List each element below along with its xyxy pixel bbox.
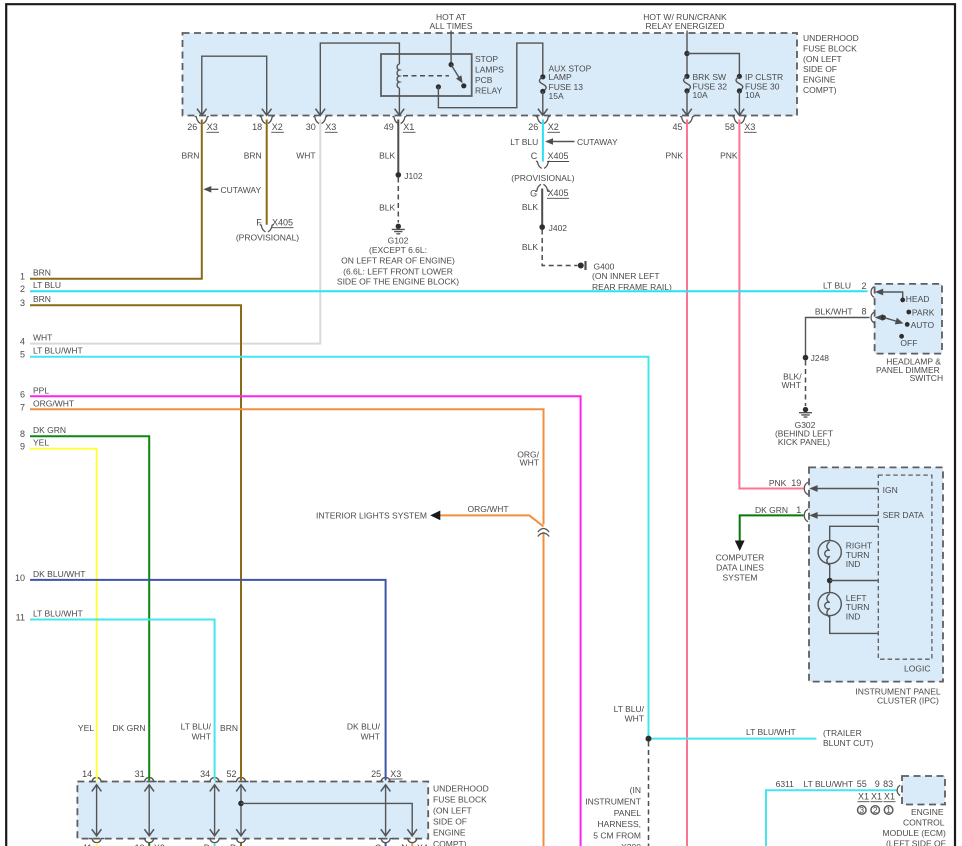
svg-text:X3: X3 [744, 122, 755, 132]
svg-text:(EXCEPT 6.6L:: (EXCEPT 6.6L: [369, 245, 427, 255]
svg-text:G: G [530, 188, 537, 198]
svg-text:RELAY: RELAY [475, 86, 503, 96]
svg-text:6311: 6311 [776, 779, 795, 789]
svg-text:PNK: PNK [666, 151, 684, 161]
svg-text:BRN: BRN [33, 294, 51, 304]
wire dashed (in instrument panel harness) [585, 742, 648, 846]
svg-text:IGN: IGN [883, 485, 898, 495]
internal arrow pin 52 [236, 785, 246, 836]
svg-text:WHT: WHT [625, 714, 644, 724]
svg-text:SER DATA: SER DATA [883, 510, 925, 520]
connector pin 19 X2 (bottom edge) [135, 839, 165, 846]
svg-text:(LEFT SIDE OF: (LEFT SIDE OF [886, 838, 946, 846]
svg-text:LT BLU/WHT: LT BLU/WHT [746, 727, 796, 737]
connector pin 52 (bottom block) [226, 769, 248, 782]
svg-text:LT BLU/: LT BLU/ [181, 722, 212, 732]
fuse F32: BRK SW FUSE 32 10A [682, 72, 727, 115]
connector pin 1 (IPC) [755, 505, 808, 522]
svg-text:8: 8 [861, 307, 866, 317]
ground G102 [337, 224, 459, 287]
svg-text:INTERIOR LIGHTS SYSTEM: INTERIOR LIGHTS SYSTEM [316, 510, 427, 520]
wire BLK dashed to ground G102 [379, 178, 398, 223]
svg-text:2: 2 [20, 284, 25, 294]
wire: bridge pins 26 and 18 [197, 56, 272, 115]
svg-text:RELAY ENERGIZED: RELAY ENERGIZED [645, 21, 724, 31]
internal arrow pin 34 [210, 785, 220, 836]
wire: relay output to AUX fuse [438, 43, 542, 108]
svg-text:WHT: WHT [782, 380, 801, 390]
svg-text:FUSE BLOCK: FUSE BLOCK [803, 43, 857, 53]
svg-text:BLK: BLK [522, 202, 538, 212]
svg-text:2: 2 [861, 281, 866, 291]
svg-text:COMPUTER: COMPUTER [716, 552, 765, 562]
wire: relay coil to pin 49 [395, 88, 405, 115]
wire label DK BLU/WHT (above pin 25) [347, 722, 381, 742]
wire ORG/WHT circuit 7 (left edge, down to interior lights branch) [20, 398, 544, 524]
svg-text:CUTAWAY: CUTAWAY [221, 185, 262, 195]
internal arrow pin 25 [381, 785, 391, 836]
svg-text:X405: X405 [272, 217, 293, 227]
svg-text:UNDERHOOD: UNDERHOOD [803, 33, 859, 43]
connector pin C (bottom edge, 25) [375, 839, 394, 846]
connector X405 pin C [511, 151, 574, 183]
wire PPL circuit 6 (left edge to bottom) [20, 385, 581, 846]
svg-text:(ON INNER LEFT: (ON INNER LEFT [592, 271, 660, 281]
wire PNK from pin 45 to bottom [666, 120, 687, 846]
wire SER DATA (logic to pin 1) [809, 510, 924, 520]
svg-text:LOGIC: LOGIC [904, 664, 930, 674]
svg-text:COMPT): COMPT) [433, 839, 467, 846]
svg-text:HEAD: HEAD [906, 294, 930, 304]
feed label HOT AT ALL TIMES [430, 12, 473, 63]
svg-text:58: 58 [725, 122, 735, 132]
svg-text:X1: X1 [858, 792, 869, 802]
svg-text:DK GRN: DK GRN [112, 723, 145, 733]
svg-text:DK GRN: DK GRN [33, 425, 66, 435]
connector pin 34 (bottom block) [200, 769, 222, 782]
svg-text:49: 49 [384, 122, 394, 132]
connector pin 19 (IPC) [769, 478, 808, 495]
wire: pin 30 riser to relay coil [316, 43, 400, 115]
svg-text:25: 25 [371, 769, 381, 779]
connector pin D (bottom edge, 52) [230, 839, 249, 846]
svg-text:4: 4 [20, 337, 25, 347]
svg-text:DK BLU/WHT: DK BLU/WHT [33, 569, 85, 579]
svg-text:1: 1 [20, 272, 25, 282]
svg-text:WHT: WHT [192, 732, 211, 742]
svg-text:HARNESS,: HARNESS, [598, 819, 641, 829]
svg-text:26: 26 [187, 122, 197, 132]
svg-text:14: 14 [82, 769, 92, 779]
svg-text:ALL TIMES: ALL TIMES [430, 21, 473, 31]
svg-text:LAMP: LAMP [549, 72, 572, 82]
wire BRN pin 18 X2 to connector X405 F [244, 120, 267, 225]
svg-text:X3: X3 [325, 122, 336, 132]
svg-text:INSTRUMENT: INSTRUMENT [585, 797, 641, 807]
svg-text:2: 2 [873, 805, 878, 815]
wire LT BLU pin 26 X2 to connector X405 C [510, 120, 543, 162]
connector pin 41 (bottom edge) [82, 839, 104, 846]
svg-text:COMPT): COMPT) [803, 85, 837, 95]
underhood fuse block (top) [183, 33, 859, 116]
svg-text:BLK: BLK [379, 150, 395, 160]
connector pin 26 X2 [528, 117, 560, 133]
svg-text:J402: J402 [549, 223, 568, 233]
svg-text:FUSE BLOCK: FUSE BLOCK [433, 794, 487, 804]
svg-text:X200: X200 [621, 842, 641, 846]
wire YEL circuit 9 (left edge to bottom fuse block pin 14) [20, 438, 97, 781]
switch wiper arm pin 8 to AUTO [881, 315, 903, 324]
svg-text:31: 31 [135, 769, 145, 779]
svg-text:BRN: BRN [220, 723, 238, 733]
wire LT BLU/WHT circuit 5 (left edge to trailer junction) [20, 346, 649, 739]
svg-text:3: 3 [20, 298, 25, 308]
wire BLK from X405 G to splice J402 [522, 189, 542, 228]
svg-text:8: 8 [20, 429, 25, 439]
svg-text:(TRAILER: (TRAILER [823, 728, 862, 738]
internal arrow pin 31 [144, 785, 154, 836]
svg-text:CUTAWAY: CUTAWAY [577, 137, 618, 147]
svg-text:C: C [531, 151, 538, 161]
connector pin N X4 (bottom edge) [401, 839, 428, 846]
svg-text:SIDE OF THE ENGINE BLOCK): SIDE OF THE ENGINE BLOCK) [337, 277, 459, 287]
svg-text:X3: X3 [207, 122, 218, 132]
wire DK GRN from IPC pin 1 to computer data lines [740, 515, 804, 545]
internal wire pin 52 to pin N X4 [238, 801, 417, 836]
svg-text:WHT: WHT [361, 732, 380, 742]
svg-text:WHT: WHT [520, 458, 539, 468]
svg-text:AUTO: AUTO [911, 320, 935, 330]
connector X405 pin F [236, 217, 299, 242]
svg-text:CONTROL: CONTROL [903, 817, 945, 827]
splice J102 [396, 171, 423, 181]
svg-text:LT BLU/WHT: LT BLU/WHT [804, 779, 854, 789]
svg-text:IND: IND [846, 611, 861, 621]
svg-text:11: 11 [16, 613, 25, 623]
svg-text:10A: 10A [745, 90, 760, 100]
svg-text:PNK: PNK [769, 478, 787, 488]
wire ORG/WHT continues to bottom through break [543, 532, 545, 846]
svg-text:BRN: BRN [182, 150, 200, 160]
svg-text:LT BLU/: LT BLU/ [614, 704, 645, 714]
svg-text:J102: J102 [404, 171, 423, 181]
svg-text:BLUNT CUT): BLUNT CUT) [823, 738, 874, 748]
svg-text:30: 30 [306, 122, 316, 132]
svg-text:83: 83 [883, 779, 893, 789]
svg-text:YEL: YEL [78, 723, 94, 733]
svg-text:1: 1 [796, 505, 801, 515]
svg-text:PPL: PPL [33, 385, 49, 395]
svg-text:MODULE (ECM): MODULE (ECM) [883, 828, 946, 838]
connector pin 8 (headlamp switch) [815, 306, 883, 323]
svg-text:(ON LEFT: (ON LEFT [803, 54, 842, 64]
svg-text:LT BLU: LT BLU [33, 280, 61, 290]
connector pin 31 (bottom block) [135, 769, 157, 782]
svg-text:10: 10 [15, 573, 25, 583]
svg-text:IND: IND [846, 559, 861, 569]
svg-text:18: 18 [252, 122, 262, 132]
wire DK GRN circuit 8 (left edge to bottom fuse block pin 31) [20, 425, 149, 780]
connector ECM (pins 55 9 83 / X1 X1 X1) [857, 779, 900, 815]
instrument panel cluster (IPC) [809, 467, 943, 705]
wire PNK from pin 58 X3 to IPC pin 19 [720, 120, 803, 489]
svg-text:RIGHT: RIGHT [846, 541, 872, 551]
svg-text:SWITCH: SWITCH [910, 373, 944, 383]
svg-text:9: 9 [20, 442, 25, 452]
svg-text:LAMPS: LAMPS [475, 65, 504, 75]
svg-text:OFF: OFF [900, 338, 917, 348]
svg-text:3: 3 [859, 805, 864, 815]
switch contacts HEAD PARK AUTO OFF [899, 294, 935, 348]
svg-text:X3: X3 [390, 769, 401, 779]
connector pin D (bottom edge, 34) [204, 839, 223, 846]
svg-text:X1: X1 [403, 122, 414, 132]
svg-text:PANEL: PANEL [614, 808, 642, 818]
ground G302 [775, 407, 833, 447]
headlamp and panel dimmer switch [875, 284, 944, 383]
svg-text:X1: X1 [871, 792, 882, 802]
svg-text:ON LEFT REAR OF ENGINE): ON LEFT REAR OF ENGINE) [341, 256, 455, 266]
connector pin 26 X3 [187, 117, 219, 133]
svg-text:J248: J248 [811, 353, 830, 363]
svg-text:(PROVISIONAL): (PROVISIONAL) [511, 173, 574, 183]
feed label HOT W/ RUN/CRANK RELAY ENERGIZED [643, 12, 727, 77]
fuse F30: IP CLSTR FUSE 30 10A [735, 72, 784, 115]
lamp: left turn indicator [818, 592, 869, 621]
svg-text:9: 9 [875, 779, 880, 789]
svg-text:PARK: PARK [912, 308, 935, 318]
trailer blunt cut junction [614, 704, 874, 748]
svg-text:(6.6L: LEFT FRONT LOWER: (6.6L: LEFT FRONT LOWER [343, 267, 453, 277]
svg-text:BRN: BRN [33, 268, 51, 278]
engine control module (ECM) [883, 776, 946, 846]
connector pin 2 (headlamp switch) [823, 281, 903, 298]
svg-text:BLK: BLK [379, 203, 395, 213]
wire BLK from pin 49 X1 [379, 120, 398, 175]
svg-text:X1: X1 [884, 792, 895, 802]
wire label LT BLU/WHT (above pin 34) [181, 722, 212, 742]
connector pin 30 X3 [306, 117, 338, 133]
underhood fuse block (bottom) [77, 782, 488, 846]
svg-text:5: 5 [20, 350, 25, 360]
fuse F13: AUX STOP LAMP FUSE 13 15A [538, 64, 592, 116]
svg-text:BLK: BLK [522, 242, 538, 252]
node: lamp junction [827, 564, 878, 593]
svg-text:ENGINE: ENGINE [803, 75, 836, 85]
svg-text:19: 19 [791, 478, 801, 488]
wire LT BLU/WHT circuit 11 (left edge to bottom fuse block pin 34) [16, 609, 215, 781]
internal arrow pin 14 [92, 785, 102, 836]
relay: STOP LAMPS PCB RELAY [381, 54, 504, 96]
svg-text:X2: X2 [548, 122, 559, 132]
svg-text:DATA LINES: DATA LINES [716, 563, 764, 573]
svg-text:UNDERHOOD: UNDERHOOD [433, 783, 489, 793]
connector pin 25 X3 (bottom block) [371, 769, 402, 782]
svg-text:(PROVISIONAL): (PROVISIONAL) [236, 232, 299, 242]
wire DK BLU/WHT circuit 10 (left edge to bottom fuse block pin 25) [15, 569, 386, 781]
break symbol on ORG/WHT wire [538, 529, 549, 537]
svg-text:LT BLU/WHT: LT BLU/WHT [33, 609, 83, 619]
svg-text:X2: X2 [272, 122, 283, 132]
computer data lines system arrow [716, 541, 765, 583]
svg-text:WHT: WHT [33, 333, 52, 343]
connector pin 45 [672, 117, 693, 132]
svg-text:LT BLU: LT BLU [823, 281, 851, 291]
splice J248 [803, 353, 830, 363]
connector pin 49 X1 [384, 117, 416, 133]
wire: right turn lamp to logic [830, 526, 879, 540]
wire BLK/WHT from switch pin 8 to splice J248 [806, 318, 870, 358]
splice J402 [539, 223, 567, 233]
svg-text:SYSTEM: SYSTEM [723, 573, 758, 583]
svg-text:PCB: PCB [475, 75, 493, 85]
svg-text:7: 7 [20, 402, 25, 412]
svg-text:X405: X405 [548, 188, 569, 198]
ground G400 [578, 261, 672, 292]
svg-text:SIDE OF: SIDE OF [803, 64, 837, 74]
svg-text:WHT: WHT [296, 150, 315, 160]
wire BLK dashed to ground G400 [522, 230, 578, 266]
svg-text:5 CM FROM: 5 CM FROM [593, 831, 641, 841]
cutaway arrow (LT BLU wire) [545, 137, 618, 147]
wire BLK/WHT dashed to ground G302 [782, 361, 806, 407]
connector pin 58 X3 [725, 117, 757, 133]
svg-text:STOP: STOP [475, 54, 498, 64]
interior lights system arrow (ORG/WHT branch) [316, 504, 544, 527]
svg-text:(ON LEFT: (ON LEFT [433, 806, 472, 816]
lamp: right turn indicator [818, 540, 872, 569]
svg-text:ORG/WHT: ORG/WHT [468, 504, 509, 514]
svg-text:X405: X405 [548, 151, 569, 161]
svg-text:BLK/WHT: BLK/WHT [815, 306, 853, 316]
wire BRN circuit 3 (left edge to bottom fuse block pin 52) [20, 294, 241, 780]
svg-text:(IN: (IN [630, 785, 641, 795]
cutaway arrow (BRN wire) [203, 185, 261, 195]
svg-text:SIDE OF: SIDE OF [433, 817, 467, 827]
svg-text:15A: 15A [549, 91, 564, 101]
svg-text:LT BLU/WHT: LT BLU/WHT [33, 346, 83, 356]
wire BRN circuit 1 (pin 26 X3 to left edge) [20, 120, 202, 282]
svg-text:ORG/WHT: ORG/WHT [33, 398, 74, 408]
node: run/crank feed junction [684, 51, 739, 77]
connector X405 pin G [530, 184, 569, 198]
svg-text:DK BLU/: DK BLU/ [347, 722, 381, 732]
svg-text:DK GRN: DK GRN [755, 505, 788, 515]
wire LT BLU/WHT 6311 to ECM [766, 779, 897, 846]
svg-text:KICK PANEL): KICK PANEL) [778, 437, 830, 447]
svg-text:10A: 10A [693, 90, 708, 100]
svg-text:YEL: YEL [33, 438, 49, 448]
wire WHT circuit 4 (pin 30 X3 to left edge) [20, 120, 320, 347]
svg-text:ENGINE: ENGINE [911, 807, 944, 817]
svg-text:LT BLU: LT BLU [510, 137, 538, 147]
svg-text:45: 45 [672, 122, 682, 132]
svg-text:6: 6 [20, 389, 25, 399]
svg-text:ENGINE: ENGINE [433, 828, 466, 838]
svg-text:1: 1 [886, 805, 891, 815]
connector pin 14 (bottom block) [82, 769, 104, 782]
svg-text:CLUSTER (IPC): CLUSTER (IPC) [877, 696, 939, 706]
svg-text:26: 26 [528, 122, 538, 132]
wire IGN (logic to pin 19) [809, 485, 898, 495]
svg-text:55: 55 [857, 779, 867, 789]
svg-text:BRN: BRN [244, 150, 262, 160]
svg-text:PNK: PNK [720, 151, 738, 161]
wire: left turn lamp to logic [830, 616, 879, 634]
svg-text:34: 34 [200, 769, 210, 779]
svg-text:52: 52 [226, 769, 236, 779]
connector pin 18 X2 [252, 117, 284, 133]
wire LT BLU circuit 2 (left edge to headlamp switch pin 2) [20, 280, 868, 294]
svg-text:F: F [256, 217, 262, 227]
